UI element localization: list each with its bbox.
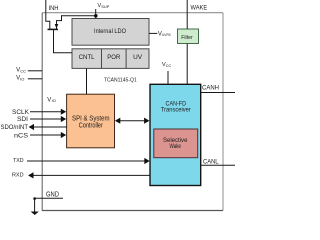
svg-text:Internal LDO: Internal LDO bbox=[94, 28, 126, 35]
svg-text:SUP: SUP bbox=[101, 4, 110, 9]
svg-text:UV: UV bbox=[133, 54, 142, 61]
svg-text:WAKE: WAKE bbox=[191, 5, 208, 11]
svg-text:UVRX: UVRX bbox=[162, 33, 171, 37]
svg-text:SDI: SDI bbox=[17, 116, 28, 123]
svg-text:CANH: CANH bbox=[202, 84, 219, 91]
svg-text:Filter: Filter bbox=[181, 35, 193, 41]
svg-text:CC: CC bbox=[166, 64, 172, 68]
svg-text:Controller: Controller bbox=[79, 122, 104, 129]
svg-text:POR: POR bbox=[107, 54, 120, 61]
svg-text:SDO/nINT: SDO/nINT bbox=[1, 124, 29, 131]
svg-text:CANL: CANL bbox=[203, 158, 219, 165]
svg-text:RXD: RXD bbox=[12, 172, 24, 178]
svg-text:Transceiver: Transceiver bbox=[161, 107, 192, 114]
svg-text:INH: INH bbox=[49, 6, 59, 12]
svg-text:GND: GND bbox=[46, 192, 59, 199]
svg-text:TCAN1145-Q1: TCAN1145-Q1 bbox=[104, 77, 137, 83]
svg-text:nCS: nCS bbox=[14, 132, 29, 139]
svg-text:CC: CC bbox=[20, 68, 26, 73]
svg-text:IO: IO bbox=[20, 76, 24, 81]
svg-text:CNTL: CNTL bbox=[79, 54, 95, 61]
svg-text:Wake: Wake bbox=[169, 143, 181, 150]
svg-text:IO: IO bbox=[52, 98, 56, 103]
svg-text:SCLK: SCLK bbox=[12, 109, 30, 116]
svg-text:TXD: TXD bbox=[13, 158, 24, 164]
